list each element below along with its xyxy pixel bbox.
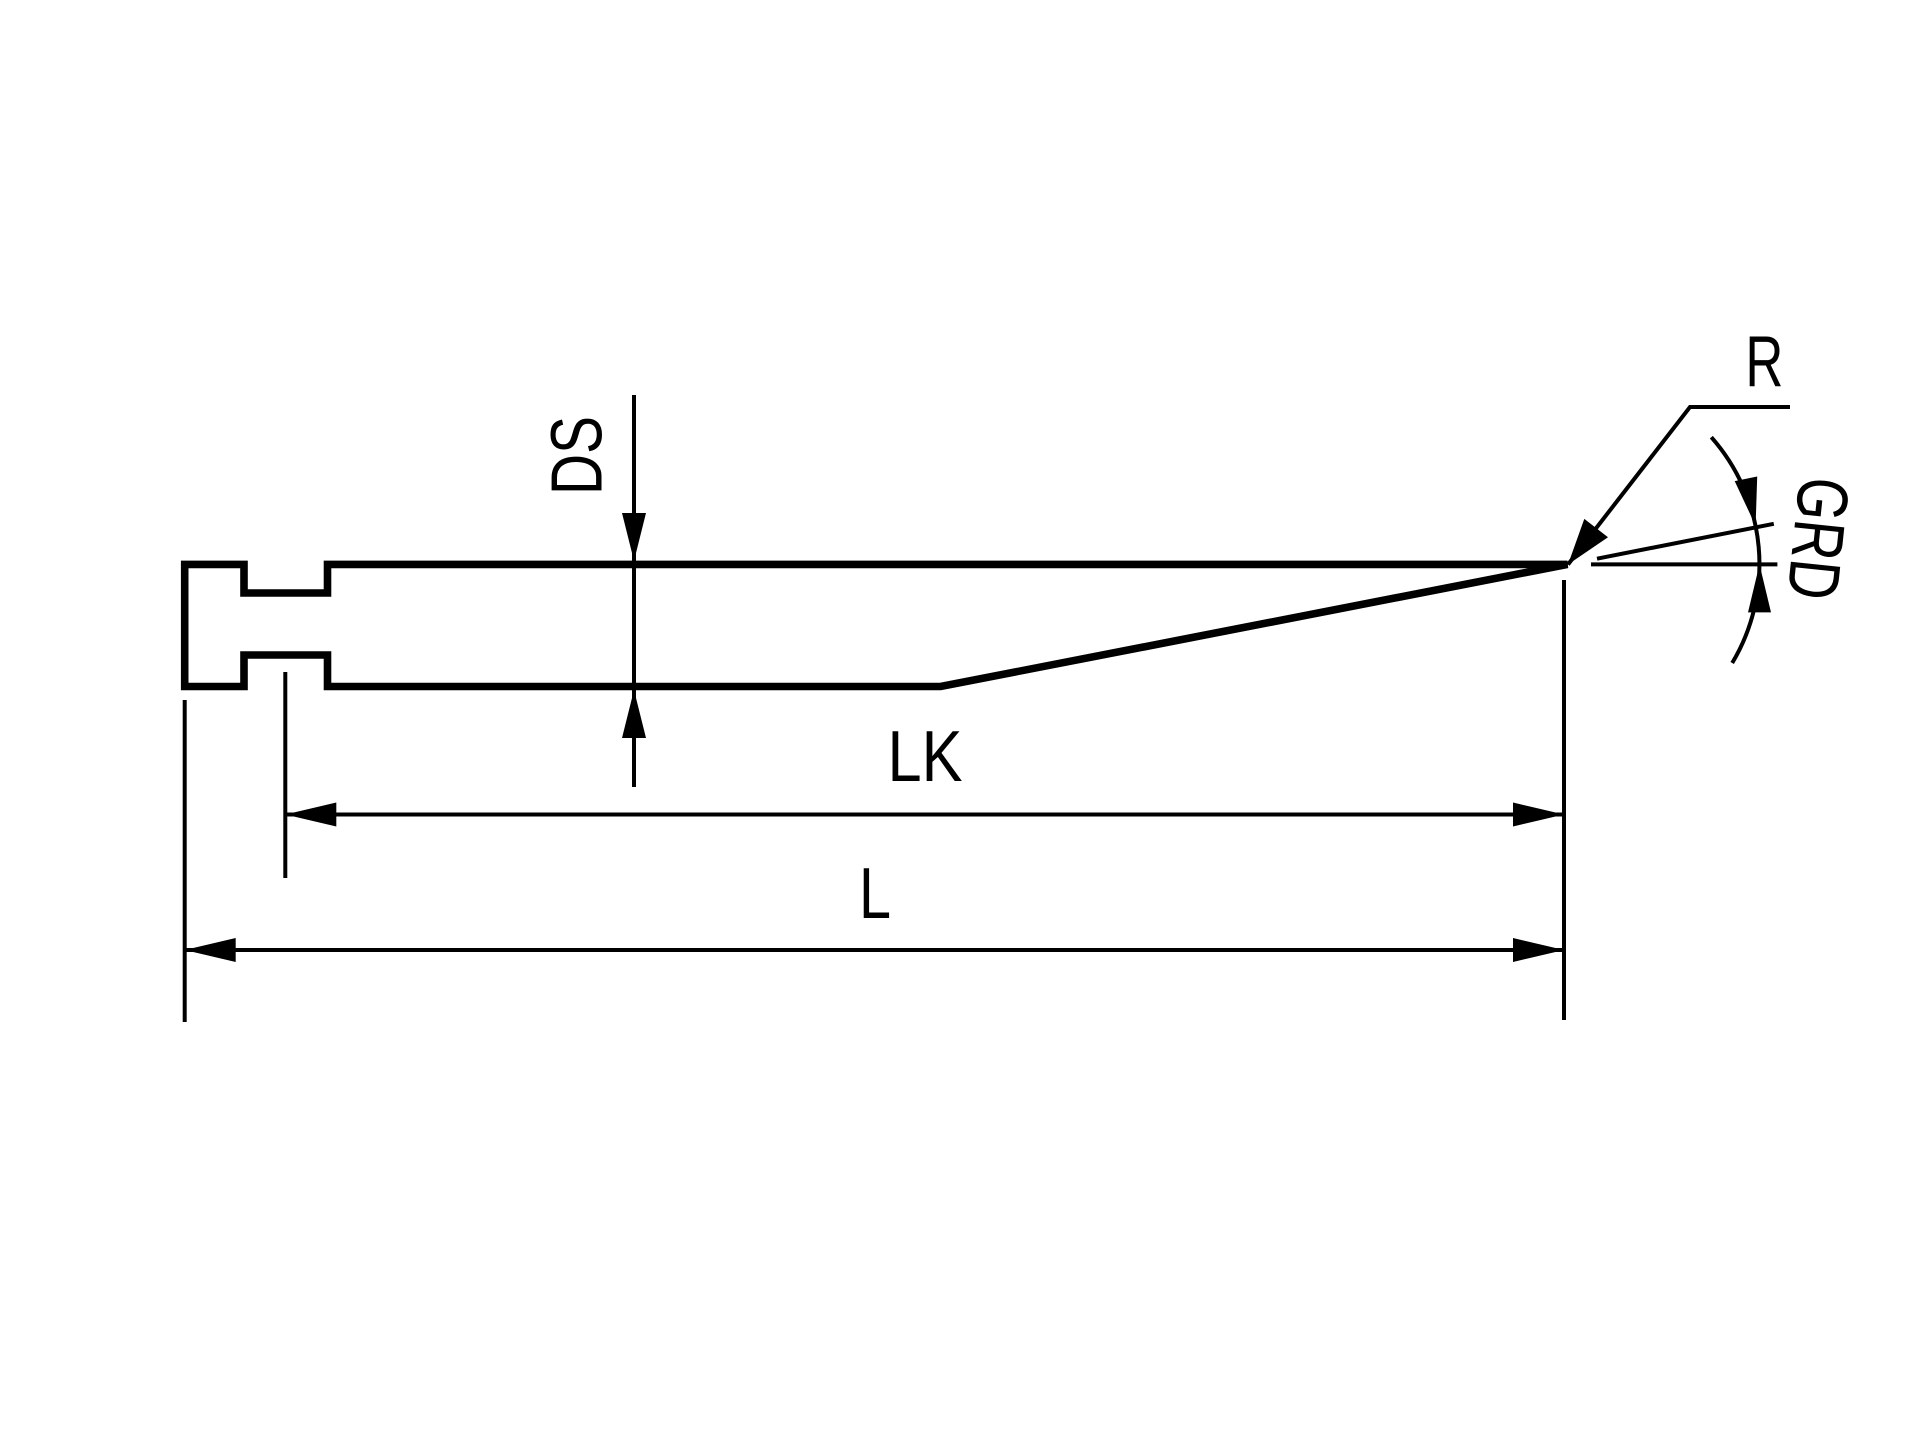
L arrow right xyxy=(1513,938,1564,962)
GRD reference line horizontal xyxy=(1591,562,1777,566)
LK arrow left xyxy=(285,803,336,827)
LK arrow right xyxy=(1513,803,1564,827)
blade outline xyxy=(185,564,1568,686)
svg-text:DS: DS xyxy=(538,416,618,495)
right extension line below tip xyxy=(1562,580,1566,1020)
GRD arc arrow upper xyxy=(1735,477,1758,526)
R leader arrow xyxy=(1568,519,1608,565)
L arrow left xyxy=(185,938,236,962)
DS dimension line xyxy=(632,395,636,787)
LK extension line left xyxy=(283,672,287,878)
GRD arc arrow lower xyxy=(1748,564,1771,612)
R leader line xyxy=(1568,407,1790,565)
DS arrow down xyxy=(622,513,646,561)
svg-text:GRD: GRD xyxy=(1771,474,1863,604)
svg-text:L: L xyxy=(859,854,891,934)
svg-text:LK: LK xyxy=(888,717,963,797)
DS arrow up xyxy=(622,690,646,738)
GRD angle arc xyxy=(1711,437,1759,663)
L extension line left xyxy=(183,700,187,1022)
svg-text:R: R xyxy=(1745,322,1783,402)
GRD reference line angled xyxy=(1597,524,1774,559)
L dimension line xyxy=(185,948,1564,952)
LK dimension line xyxy=(285,813,1564,817)
